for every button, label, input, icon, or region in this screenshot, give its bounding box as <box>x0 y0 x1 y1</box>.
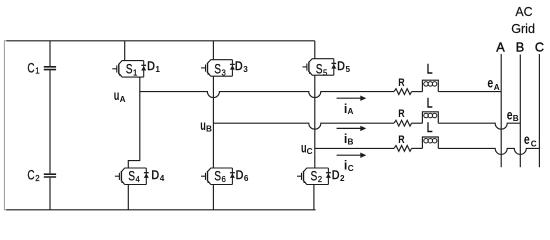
diode D4 <box>144 168 149 185</box>
wire S3 emitter to phase B node <box>212 76 214 123</box>
svg-text:A: A <box>120 95 126 104</box>
resistor R phase C <box>394 146 412 152</box>
svg-text:S: S <box>311 168 318 183</box>
inductor L phase B <box>422 112 438 123</box>
svg-text:B: B <box>206 124 212 133</box>
svg-text:L: L <box>427 96 433 111</box>
svg-text:2: 2 <box>318 175 322 184</box>
diode D1 <box>141 61 146 78</box>
svg-text:S: S <box>316 62 323 77</box>
transistor S4 (IGBT) <box>115 168 146 185</box>
svg-text:D: D <box>235 60 243 73</box>
wire top DC bus <box>6 40 315 42</box>
svg-text:C: C <box>531 139 537 148</box>
wire S6 emitter to bottom bus <box>212 185 214 210</box>
svg-text:D: D <box>236 169 244 182</box>
svg-text:R: R <box>398 134 404 146</box>
wire phase A node down to S4 with jog <box>128 92 140 168</box>
svg-text:C: C <box>535 41 544 55</box>
svg-text:D: D <box>151 169 159 182</box>
wire phase A between R and L <box>412 91 423 93</box>
svg-text:A: A <box>494 83 500 92</box>
svg-text:3: 3 <box>222 68 226 77</box>
transistor S2 (IGBT) <box>297 168 328 185</box>
wire leg A from top bus to S1 <box>124 41 126 61</box>
inductor L phase C <box>422 137 438 148</box>
wire phase C output <box>315 147 394 149</box>
wire capacitor branch lower <box>49 178 51 210</box>
capacitor C1 <box>44 67 56 70</box>
svg-text:B: B <box>513 114 519 123</box>
wire bottom DC bus <box>6 209 315 211</box>
svg-text:C: C <box>307 147 313 156</box>
svg-text:AC: AC <box>515 4 533 19</box>
svg-text:A: A <box>348 107 354 116</box>
svg-text:C: C <box>348 164 354 173</box>
wire leg C from top bus to S5 <box>314 41 316 59</box>
wire phase A output with crossover hops <box>140 92 394 98</box>
transistor S1 (IGBT) <box>112 61 143 78</box>
svg-text:B: B <box>348 137 354 146</box>
diode D5 <box>331 59 336 75</box>
svg-text:L: L <box>427 120 433 135</box>
transistor S6 (IGBT) <box>201 168 232 185</box>
svg-text:2: 2 <box>35 174 39 183</box>
wire phase B from L to grid with hop over grid line A <box>438 123 520 129</box>
svg-text:R: R <box>398 108 404 120</box>
resistor R phase A <box>394 89 412 95</box>
wire phase C from L to grid with hops over grid lines A and B <box>438 148 539 154</box>
diode D3 <box>230 60 235 76</box>
svg-text:Grid: Grid <box>511 21 535 36</box>
diode D2 <box>326 168 331 185</box>
transistor S3 (IGBT) <box>201 60 232 76</box>
wire S5 emitter to phase C node down to S2 <box>314 75 316 168</box>
svg-text:D: D <box>147 60 155 73</box>
wire phase B output with crossover hops <box>213 123 394 129</box>
inductor L phase A <box>422 80 438 91</box>
svg-text:C: C <box>27 167 34 182</box>
svg-text:S: S <box>128 168 135 183</box>
grid line A vertical <box>500 54 502 167</box>
wire leg B from top bus to S3 <box>212 41 214 60</box>
wire phase A from L to grid phase A <box>438 91 501 93</box>
svg-text:D: D <box>332 169 340 182</box>
svg-text:D: D <box>337 60 345 73</box>
svg-text:1: 1 <box>155 65 160 74</box>
wire S4 emitter to bottom bus <box>127 185 129 210</box>
svg-text:6: 6 <box>244 174 249 183</box>
wire phase B node down to S6 <box>212 123 214 168</box>
grid line B vertical <box>519 55 521 168</box>
wire capacitor branch upper <box>49 41 51 66</box>
transistor S5 (IGBT) <box>302 59 333 75</box>
svg-text:L: L <box>427 62 433 77</box>
svg-text:5: 5 <box>323 68 328 77</box>
svg-text:e: e <box>487 76 493 91</box>
svg-text:4: 4 <box>160 174 165 183</box>
resistor R phase B <box>394 120 412 126</box>
diode D6 <box>230 168 235 185</box>
svg-text:e: e <box>524 132 530 147</box>
svg-text:B: B <box>516 40 524 54</box>
svg-text:R: R <box>398 77 404 89</box>
wire capacitor branch middle <box>49 70 51 173</box>
wire left DC link vertical (faint) <box>4 41 6 210</box>
svg-text:S: S <box>214 62 221 77</box>
svg-text:C: C <box>27 60 34 75</box>
current arrow iB <box>337 126 367 131</box>
wire phase C between R and L <box>412 147 423 149</box>
svg-text:u: u <box>114 88 120 103</box>
svg-text:3: 3 <box>243 65 248 74</box>
grid line C vertical <box>538 54 540 167</box>
svg-text:S: S <box>126 62 133 77</box>
svg-text:5: 5 <box>346 65 351 74</box>
svg-text:6: 6 <box>222 175 226 184</box>
capacitor C2 <box>44 174 56 177</box>
svg-text:A: A <box>496 41 505 55</box>
wire S1 emitter to phase A node <box>139 77 141 92</box>
svg-text:4: 4 <box>136 175 141 184</box>
svg-text:S: S <box>214 168 221 183</box>
wire phase B between R and L <box>412 122 423 124</box>
svg-text:2: 2 <box>340 174 345 183</box>
current arrow iC <box>337 153 367 158</box>
current arrow iA <box>337 96 367 101</box>
svg-text:1: 1 <box>35 67 39 76</box>
svg-text:1: 1 <box>133 68 137 77</box>
wire S2 emitter to bottom bus <box>313 185 315 210</box>
